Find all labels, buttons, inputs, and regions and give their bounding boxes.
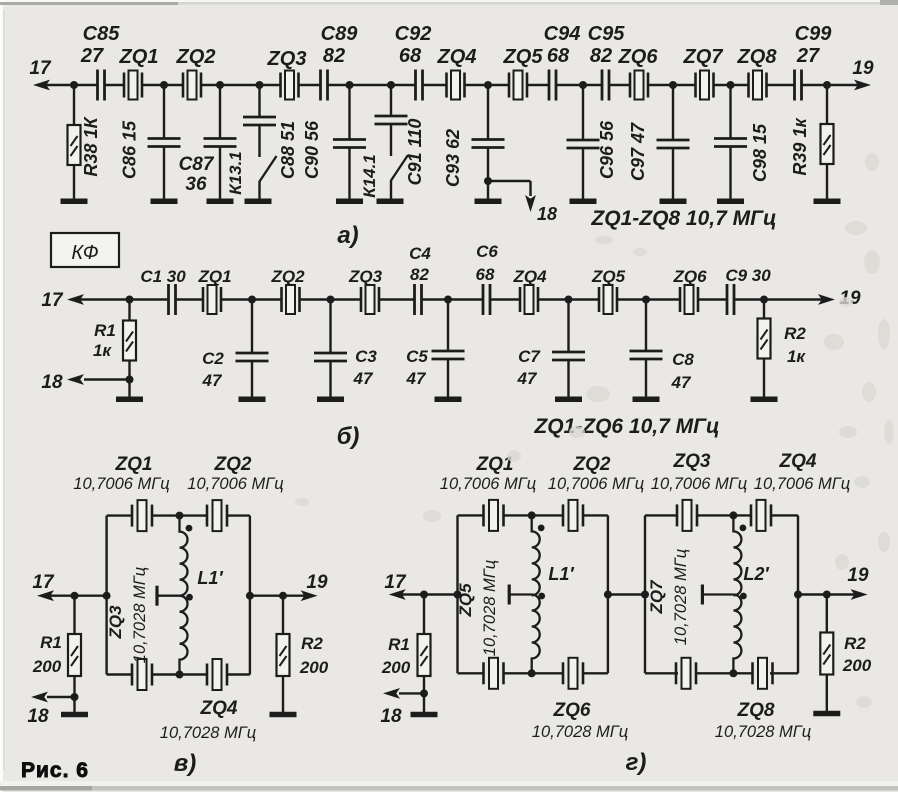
crystal ZQ5 (g) — [484, 658, 504, 689]
svg-text:а): а) — [337, 222, 358, 249]
svg-text:10,7006 МГц: 10,7006 МГц — [73, 475, 169, 493]
crystal ZQ1 (a) — [124, 71, 142, 100]
ground (capacitor C7) — [555, 396, 582, 402]
node R2 (g) — [823, 591, 831, 599]
svg-text:C94: C94 — [544, 23, 581, 45]
svg-text:L2′: L2′ — [743, 564, 769, 584]
lattice g1: coil node bottom — [528, 669, 536, 677]
crystal ZQ4 (b) — [520, 285, 538, 314]
svg-text:19: 19 — [847, 565, 869, 586]
wire — [729, 85, 731, 139]
svg-text:10,7028 МГц: 10,7028 МГц — [160, 724, 256, 742]
wire — [329, 300, 331, 354]
node C93 — [484, 81, 492, 89]
ground (R1 g) — [411, 712, 438, 718]
resistor R1 (b) — [123, 321, 136, 361]
node: input node circuit a — [70, 81, 78, 89]
node R2 (b) — [760, 296, 768, 304]
svg-text:C4: C4 — [409, 244, 431, 263]
wire — [251, 361, 253, 399]
crystal ZQ3 (g) — [677, 500, 697, 531]
svg-text:47: 47 — [517, 369, 538, 388]
svg-text:18: 18 — [537, 204, 557, 224]
crystal ZQ2 (a) — [183, 71, 201, 100]
lattice v: left rail wire — [105, 516, 107, 675]
svg-text:К13.1: К13.1 — [226, 151, 245, 195]
svg-text:ZQ4: ZQ4 — [437, 46, 477, 68]
scan noise (decorative) — [295, 153, 894, 708]
crystal ZQ6 (b) — [680, 285, 698, 314]
capacitor C91 — [375, 116, 408, 124]
crystal ZQ3 (a) — [281, 71, 299, 100]
wire R2 (g) — [826, 595, 828, 633]
svg-text:C1 30: C1 30 — [140, 267, 186, 286]
wire — [447, 359, 449, 399]
wire — [258, 125, 260, 157]
svg-text:C6: C6 — [476, 242, 498, 261]
capacitor C9 — [727, 284, 734, 315]
wire R39 — [826, 85, 828, 124]
node — [327, 296, 335, 304]
wire to 18 — [47, 696, 75, 698]
terminal 18 arrow (v) — [31, 692, 48, 703]
svg-text:ZQ1: ZQ1 — [119, 46, 159, 68]
svg-text:C2: C2 — [202, 349, 224, 368]
terminal 18 arrow (g) — [383, 688, 400, 699]
inductor coil lattice g1 — [532, 515, 540, 595]
svg-text:ZQ1-ZQ8 10,7 МГц: ZQ1-ZQ8 10,7 МГц — [590, 207, 776, 230]
svg-text:82: 82 — [590, 45, 612, 67]
node rail g1 left — [454, 591, 462, 599]
svg-text:17: 17 — [29, 58, 52, 79]
svg-text:C93 62: C93 62 — [443, 129, 463, 187]
svg-text:R38 1К: R38 1К — [81, 116, 101, 177]
svg-text:C5: C5 — [406, 347, 428, 366]
ground (R2 g) — [813, 711, 840, 717]
resistor R2 (b) — [758, 319, 771, 359]
wire — [729, 147, 731, 201]
capacitor C95 — [602, 70, 609, 101]
svg-text:R2: R2 — [301, 634, 323, 653]
svg-text:L1′: L1′ — [197, 568, 223, 588]
svg-text:ZQ1-ZQ6 10,7 МГц: ZQ1-ZQ6 10,7 МГц — [533, 415, 719, 438]
terminal 17 arrow (circuit b) — [67, 294, 84, 305]
wire — [163, 85, 165, 139]
node C87 — [216, 81, 224, 89]
lattice g2: coil node top — [729, 511, 737, 519]
resistor R2 (g) — [820, 633, 833, 675]
svg-text:17: 17 — [384, 572, 407, 593]
lattice g2: bottom branch wire — [645, 672, 678, 674]
node rail g1 right — [604, 591, 612, 599]
wire — [390, 180, 392, 201]
svg-text:10,7028 МГц: 10,7028 МГц — [532, 723, 628, 741]
svg-text:ZQ2: ZQ2 — [270, 267, 305, 286]
svg-text:82: 82 — [410, 265, 429, 284]
capacitor C99 — [795, 70, 802, 101]
lattice v: center tap stub — [158, 595, 180, 597]
wire to 18 — [399, 692, 424, 694]
svg-text:ZQ1: ZQ1 — [197, 267, 231, 286]
lattice g1: polarity dot top — [538, 525, 545, 532]
lattice g1: coil node top — [528, 511, 536, 519]
crystal ZQ2 (b) — [282, 285, 300, 314]
lattice v: bottom branch wire — [107, 673, 133, 675]
svg-text:ZQ6: ZQ6 — [553, 700, 591, 721]
svg-text:ZQ8: ZQ8 — [737, 700, 775, 721]
wire mid left (v) — [46, 595, 107, 597]
capacitor C3 — [314, 353, 347, 361]
svg-text:ZQ3: ZQ3 — [348, 267, 383, 286]
capacitor C89 — [321, 70, 328, 101]
wire — [128, 361, 130, 380]
wire — [763, 359, 765, 399]
lattice g1: center tap stub — [510, 593, 532, 595]
capacitor C98 — [714, 139, 747, 147]
svg-text:36: 36 — [185, 174, 207, 195]
inductor coil lattice g2 — [733, 515, 741, 595]
lattice g2: center tap stub — [703, 593, 734, 595]
crystal ZQ8 (a) — [749, 71, 767, 100]
svg-text:в): в) — [174, 750, 197, 777]
wire — [219, 85, 221, 139]
resistor R38 — [68, 125, 81, 165]
wire R1 (g) — [423, 595, 425, 635]
lattice v: coil node bottom — [176, 671, 184, 679]
capacitor C2 — [236, 353, 269, 361]
wire — [487, 85, 489, 140]
svg-text:1к: 1к — [93, 341, 112, 360]
node — [642, 296, 650, 304]
svg-text:C97 47: C97 47 — [628, 122, 648, 181]
ground (capacitor C3) — [317, 396, 344, 402]
svg-text:18: 18 — [41, 372, 63, 393]
wire: circuit b main line — [76, 298, 169, 300]
node C98 — [727, 81, 735, 89]
wire to 18 — [84, 378, 130, 380]
wire — [826, 675, 828, 712]
svg-text:ZQ2: ZQ2 — [573, 454, 611, 475]
terminal 18 arrow (circuit a) — [525, 195, 536, 212]
node R1 (g) — [420, 591, 428, 599]
crystal ZQ2 (v) — [207, 500, 227, 531]
svg-text:R1: R1 — [40, 633, 62, 652]
svg-text:82: 82 — [323, 45, 345, 67]
svg-text:R1: R1 — [388, 635, 410, 654]
node R2 (v) — [279, 592, 287, 600]
ground (C96) — [570, 198, 597, 204]
KF block label — [51, 233, 119, 267]
svg-text:68: 68 — [547, 45, 570, 67]
svg-text:C90 56: C90 56 — [302, 120, 322, 179]
svg-text:ZQ5: ZQ5 — [591, 267, 626, 286]
svg-text:ZQ5: ZQ5 — [503, 46, 544, 68]
svg-text:г): г) — [626, 749, 647, 776]
svg-text:C95: C95 — [588, 23, 626, 45]
lattice g2: polarity dot top — [740, 525, 747, 532]
svg-text:К14.1: К14.1 — [360, 154, 379, 198]
wire — [390, 124, 392, 156]
wire R1 (v) — [73, 596, 75, 634]
node 18 tap — [484, 177, 492, 185]
terminal 19 arrow (v) — [301, 590, 318, 601]
wire — [73, 676, 75, 712]
wire — [645, 300, 647, 352]
ground (C93) — [475, 198, 502, 204]
crystal ZQ3 (v) — [132, 659, 152, 690]
wire — [258, 85, 260, 117]
ground (capacitor C8) — [633, 396, 660, 402]
svg-text:ZQ3: ZQ3 — [267, 48, 307, 70]
crystal ZQ8 (g) — [753, 658, 773, 689]
capacitor C7 — [552, 352, 585, 360]
terminal 19 arrow (circuit a) — [854, 80, 871, 91]
ground (C88) — [245, 198, 272, 204]
terminal 19 arrow (g) — [851, 589, 868, 600]
svg-text:C9 30: C9 30 — [725, 266, 771, 285]
terminal 17 arrow (circuit a) — [33, 80, 50, 91]
svg-text:ZQ4: ZQ4 — [200, 698, 238, 719]
ground (C87) — [207, 198, 234, 204]
ground (C98) — [717, 198, 744, 204]
lattice g2: top branch wire — [645, 514, 678, 516]
wire — [567, 360, 569, 399]
ground (C86) — [151, 198, 178, 204]
crystal ZQ4 (g) — [751, 500, 771, 531]
svg-text:200: 200 — [381, 658, 411, 677]
node C86 — [160, 81, 168, 89]
wire — [447, 300, 449, 352]
node 18 (v) — [71, 693, 79, 701]
svg-text:ZQ2: ZQ2 — [176, 46, 216, 68]
wire — [582, 85, 584, 140]
ground (R2 v) — [270, 712, 297, 718]
node C90 — [346, 81, 354, 89]
svg-text:C85: C85 — [83, 23, 121, 45]
capacitor C6 — [483, 284, 490, 315]
crystal ZQ5 (a) — [509, 71, 527, 100]
svg-text:10,7028 МГц: 10,7028 МГц — [131, 567, 149, 663]
node R1 (b) — [126, 296, 134, 304]
svg-text:C8: C8 — [672, 350, 694, 369]
svg-text:C86 15: C86 15 — [120, 120, 140, 179]
resistor R1 (g) — [418, 634, 431, 676]
wire — [423, 676, 425, 712]
wire — [251, 300, 253, 354]
svg-text:47: 47 — [202, 371, 223, 390]
ground (R38) — [61, 198, 88, 204]
resistor R39 — [821, 124, 834, 164]
wire R2 (v) — [282, 596, 284, 634]
svg-text:ZQ6: ZQ6 — [618, 46, 659, 68]
wire — [487, 181, 489, 201]
node rail left (v) — [103, 592, 111, 600]
svg-text:68: 68 — [476, 265, 495, 284]
ground (C90) — [336, 198, 363, 204]
lattice g2: left rail wire — [644, 515, 646, 673]
lattice g1: bottom branch wire — [458, 672, 485, 674]
svg-text:200: 200 — [842, 656, 872, 675]
crystal ZQ3 (b) — [361, 285, 379, 314]
svg-text:10,7006 МГц: 10,7006 МГц — [548, 475, 644, 493]
wire — [645, 359, 647, 399]
node rail right (v) — [246, 592, 254, 600]
lattice g1: polarity dot mid — [538, 593, 545, 600]
crystal ZQ7 (a) — [696, 71, 714, 100]
svg-text:C7: C7 — [518, 347, 541, 366]
lattice g2: coil node bottom — [729, 669, 737, 677]
svg-text:200: 200 — [299, 658, 329, 677]
wire mid right (g) — [798, 593, 860, 595]
svg-text:47: 47 — [671, 373, 692, 392]
lattice g1: top branch wire — [458, 514, 485, 516]
resistor R1 (v) — [68, 634, 81, 676]
wire — [348, 85, 350, 140]
terminal 18 arrow (circuit b) — [67, 374, 84, 385]
svg-text:C99: C99 — [795, 23, 833, 45]
svg-text:10,7028 МГц: 10,7028 МГц — [481, 560, 499, 656]
svg-text:ZQ4: ZQ4 — [512, 267, 547, 286]
ground (C91) — [377, 198, 404, 204]
capacitor C86 — [148, 139, 181, 147]
capacitor C1 — [169, 284, 176, 315]
wire — [219, 147, 221, 201]
crystal ZQ7 (g) — [676, 658, 696, 689]
ground (C97) — [660, 198, 687, 204]
crystal ZQ6 (a) — [630, 71, 648, 100]
lattice v: top branch wire — [107, 514, 133, 516]
svg-text:КФ: КФ — [71, 242, 98, 264]
lattice v: polarity dot mid — [186, 594, 193, 601]
ground (R39) — [814, 198, 841, 204]
svg-text:10,7006 МГц: 10,7006 МГц — [187, 475, 283, 493]
node output circuit a — [823, 81, 831, 89]
wire — [487, 148, 489, 182]
crystal ZQ5 (b) — [599, 285, 617, 314]
node R1 (v) — [71, 592, 79, 600]
svg-text:27: 27 — [796, 45, 820, 67]
wire — [348, 148, 350, 201]
capacitor C4 — [415, 284, 422, 315]
capacitor C96 — [567, 140, 600, 148]
node C91 — [387, 81, 395, 89]
inductor coil lattice v — [180, 516, 188, 596]
lattice g1: left rail wire — [456, 515, 458, 673]
svg-text:C98 15: C98 15 — [750, 123, 770, 182]
lattice v: polarity dot top — [186, 525, 193, 532]
wire — [258, 181, 260, 201]
svg-text:19: 19 — [306, 572, 328, 593]
crystal ZQ4 (a) — [447, 71, 465, 100]
lattice g2: right rail wire — [797, 515, 799, 673]
svg-text:R2: R2 — [844, 634, 866, 653]
switch K13.1 — [260, 156, 277, 182]
wire — [282, 676, 284, 712]
capacitor C85 — [98, 70, 105, 101]
wire mid join (g) — [608, 593, 645, 595]
capacitor C92 — [416, 70, 423, 101]
svg-text:10,7006 МГц: 10,7006 МГц — [754, 475, 850, 493]
node rail g2 right — [794, 591, 802, 599]
node — [248, 296, 256, 304]
crystal ZQ1 (v) — [132, 500, 152, 531]
lattice v: right rail wire — [249, 516, 251, 675]
svg-text:C88 51: C88 51 — [278, 121, 298, 179]
switch K14.1 — [391, 155, 408, 181]
node C96 — [579, 81, 587, 89]
wire — [329, 361, 331, 399]
crystal ZQ1 (b) — [203, 285, 221, 314]
wire: circuit a main line — [42, 84, 98, 86]
svg-text:18: 18 — [27, 706, 49, 727]
capacitor C87 — [204, 139, 237, 147]
capacitor C5 — [432, 351, 465, 359]
capacitor C8 — [630, 351, 663, 359]
svg-text:ZQ7: ZQ7 — [683, 46, 724, 68]
svg-text:10,7028 МГц: 10,7028 МГц — [715, 723, 811, 741]
wire — [672, 148, 674, 201]
svg-text:10,7006 МГц: 10,7006 МГц — [651, 475, 747, 493]
node — [444, 296, 452, 304]
wire R38 — [73, 85, 75, 125]
svg-text:C3: C3 — [355, 347, 377, 366]
svg-text:10,7028 МГц: 10,7028 МГц — [672, 549, 690, 645]
wire R2 — [763, 300, 765, 319]
svg-text:R1: R1 — [94, 321, 116, 340]
terminal 17 arrow (g) — [389, 589, 406, 600]
capacitor C88 — [243, 117, 276, 125]
svg-text:68: 68 — [399, 45, 422, 67]
wire mid right (v) — [250, 595, 309, 597]
wire — [582, 148, 584, 201]
svg-text:R39 1к: R39 1к — [790, 118, 810, 176]
svg-text:17: 17 — [41, 290, 64, 311]
ground (capacitor C2) — [239, 396, 266, 402]
node — [565, 296, 573, 304]
svg-text:19: 19 — [852, 58, 874, 79]
capacitor C94 — [549, 70, 556, 101]
capacitor C93 — [472, 140, 505, 148]
capacitor C97 — [657, 140, 690, 148]
wire — [672, 85, 674, 140]
svg-text:ZQ8: ZQ8 — [737, 46, 778, 68]
svg-text:Рис. 6: Рис. 6 — [21, 759, 89, 782]
svg-text:ZQ7: ZQ7 — [647, 579, 666, 615]
crystal ZQ6 (g) — [563, 658, 583, 689]
lattice g1: right rail wire — [607, 515, 609, 673]
svg-text:17: 17 — [32, 572, 55, 593]
svg-text:C92: C92 — [395, 23, 432, 45]
svg-text:ZQ3: ZQ3 — [106, 605, 125, 640]
lattice v: coil node top — [176, 512, 184, 520]
crystal ZQ1 (g) — [484, 500, 504, 531]
ground (R2 b) — [751, 396, 778, 402]
wire to 18 — [488, 180, 531, 182]
wire — [567, 300, 569, 353]
svg-text:18: 18 — [380, 706, 402, 727]
ground (R1 b) — [116, 396, 143, 402]
svg-text:C96 56: C96 56 — [597, 120, 617, 179]
svg-text:ZQ4: ZQ4 — [779, 451, 817, 472]
svg-text:47: 47 — [406, 369, 427, 388]
resistor R2 (v) — [277, 634, 290, 676]
ground (capacitor C5) — [435, 396, 462, 402]
node C88 — [256, 81, 264, 89]
node 18 (g) — [420, 689, 428, 697]
svg-text:ZQ3: ZQ3 — [673, 451, 711, 472]
wire — [163, 147, 165, 201]
svg-text:1к: 1к — [787, 347, 806, 366]
